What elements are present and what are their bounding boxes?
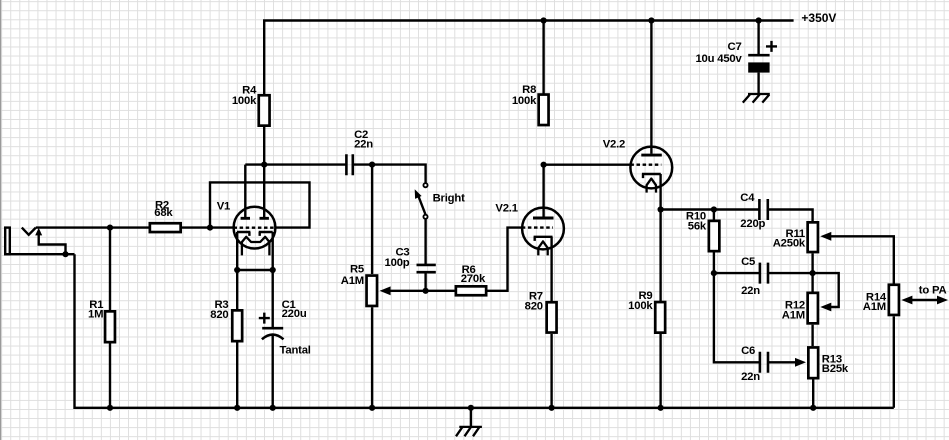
svg-text:A1M: A1M xyxy=(782,309,805,321)
svg-text:C6: C6 xyxy=(741,345,755,357)
junction: R1 top xyxy=(107,225,113,231)
capacitor C5 22n xyxy=(741,256,768,297)
svg-text:V2.2: V2.2 xyxy=(603,139,625,151)
junction: R4 bottom node xyxy=(261,162,267,168)
V2.1 grid dashes xyxy=(522,226,553,228)
wire: C6 to R13 wiper xyxy=(768,361,796,363)
svg-text:1M: 1M xyxy=(88,308,103,320)
svg-text:22n: 22n xyxy=(741,285,760,297)
svg-text:270k: 270k xyxy=(461,273,486,285)
junction: R13 bottom on rail xyxy=(810,405,816,411)
wire: +350V top rail xyxy=(264,21,793,95)
V2.2 heater xyxy=(647,179,656,193)
capacitor C1 220u Tantal xyxy=(259,270,311,408)
V1 plate leads xyxy=(245,165,264,217)
svg-text:A250k: A250k xyxy=(773,238,806,250)
wire: R10 bottom to C5 xyxy=(714,272,760,274)
V2.2 grid dashes xyxy=(630,163,661,165)
resistor R2 68k xyxy=(150,199,181,232)
V1 cathode leads xyxy=(237,232,273,270)
capacitor C7 10u 450v xyxy=(695,21,777,94)
svg-text:C5: C5 xyxy=(741,256,755,268)
resistor R9 100k xyxy=(628,210,665,408)
input jack xyxy=(4,228,75,258)
wire: V1 grid tie box xyxy=(210,182,310,227)
svg-text:820: 820 xyxy=(210,309,228,321)
junction: C1 bottom on rail xyxy=(270,405,276,411)
junction: C2 output node xyxy=(369,162,375,168)
wire: R2 to V1 grid xyxy=(182,226,233,228)
wire: node down to R5 top xyxy=(371,165,373,274)
V2.1 plate lead xyxy=(542,165,544,217)
resistor R1 1M xyxy=(88,228,115,408)
junction: ground on rail xyxy=(468,405,474,411)
V1 grid dashes xyxy=(234,226,276,228)
junction: R10 bottom node xyxy=(711,270,717,276)
V1 heater xyxy=(242,237,270,256)
V2.1 heater xyxy=(538,241,547,255)
svg-text:Bright: Bright xyxy=(433,192,465,204)
potentiometer R12 A1M xyxy=(782,273,832,346)
capacitor C3 100p xyxy=(385,219,436,291)
wire: node to V2.2 grid xyxy=(544,163,631,165)
junction: C3 bottom node xyxy=(423,288,429,294)
svg-text:A1M: A1M xyxy=(341,275,364,287)
junction: R9 bottom on rail xyxy=(658,405,664,411)
junction: R8 top on rail xyxy=(541,17,547,23)
resistor R3 820 xyxy=(210,270,242,408)
junction: tie right xyxy=(270,267,276,273)
wire: cathode tie xyxy=(237,269,273,271)
wire: C4 to R11 xyxy=(768,210,813,222)
resistor R8 100k xyxy=(512,21,549,126)
svg-text:+350V: +350V xyxy=(801,11,836,25)
svg-text:A1M: A1M xyxy=(863,301,886,313)
junction: V2.2 plate on rail xyxy=(648,17,654,23)
tube V2.1 xyxy=(495,165,563,256)
potentiometer R13 B25k xyxy=(795,347,849,407)
junction: R1 bottom on rail xyxy=(107,405,113,411)
wire: R14 wiper to PA with output arrow xyxy=(912,285,948,305)
junction: cathode node xyxy=(658,206,664,212)
junction: tie left xyxy=(234,267,240,273)
left window edge xyxy=(0,0,2,440)
potentiometer R11 A250k xyxy=(773,222,832,273)
switch Bright xyxy=(415,183,465,219)
junction: R8 bottom node xyxy=(541,162,547,168)
resistor R10 56k xyxy=(686,210,719,274)
capacitor C6 22n xyxy=(741,345,768,383)
tube V1 xyxy=(217,165,276,270)
svg-text:68k: 68k xyxy=(154,207,173,219)
ground: below C7 xyxy=(743,94,770,103)
tube V2.2 xyxy=(603,21,672,193)
resistor R6 270k xyxy=(456,264,486,295)
wire: plate node to C2 xyxy=(245,163,346,165)
svg-text:V2.1: V2.1 xyxy=(495,203,517,215)
junction: grid node xyxy=(207,225,213,231)
V2.2 cathode xyxy=(642,174,661,178)
svg-text:B25k: B25k xyxy=(822,363,849,375)
wire: R6 to V2.1 grid xyxy=(488,228,522,291)
svg-text:C4: C4 xyxy=(740,192,755,204)
resistor R7 820 xyxy=(525,237,557,408)
svg-text:220u: 220u xyxy=(282,308,307,320)
svg-text:C7: C7 xyxy=(728,41,742,53)
potentiometer R5 A1M xyxy=(341,263,391,408)
svg-text:820: 820 xyxy=(525,300,543,312)
junction: C7 top on rail xyxy=(756,17,762,23)
svg-text:100p: 100p xyxy=(385,257,410,269)
svg-text:220p: 220p xyxy=(740,218,765,230)
junction: R3 bottom on rail xyxy=(234,405,240,411)
capacitor C2 22n xyxy=(346,129,373,175)
V2.2 plate bar xyxy=(641,154,662,157)
V1 plate bars xyxy=(241,217,269,220)
junction: R10 top xyxy=(711,206,717,212)
svg-text:V1: V1 xyxy=(217,201,230,213)
svg-text:100k: 100k xyxy=(628,300,653,312)
wire: bottom ground rail xyxy=(75,254,894,408)
resistor R4 100k xyxy=(232,85,270,165)
wire: V2.2 cathode down xyxy=(659,174,661,210)
ground: bottom rail xyxy=(456,408,482,437)
wire: R5 wiper to R6 xyxy=(390,290,455,292)
wire: C5 to R12 node xyxy=(768,272,813,274)
svg-text:to PA: to PA xyxy=(919,285,947,297)
svg-text:56k: 56k xyxy=(688,220,707,232)
svg-text:10u 450v: 10u 450v xyxy=(695,53,742,65)
junction: R11/R12/C5 node xyxy=(810,270,816,276)
wire: R11 wiper to R14 top xyxy=(831,236,894,283)
svg-text:22n: 22n xyxy=(741,371,760,383)
svg-text:R5: R5 xyxy=(350,263,364,275)
svg-text:100k: 100k xyxy=(512,95,537,107)
svg-text:Tantal: Tantal xyxy=(280,345,311,357)
wire: jack tip to R2 xyxy=(36,226,149,228)
V2.1 cathode xyxy=(534,237,553,241)
V1 cathode right xyxy=(259,232,273,236)
capacitor C4 220p xyxy=(740,192,768,230)
V1 cathode left xyxy=(237,232,251,236)
svg-text:100k: 100k xyxy=(232,95,257,107)
svg-text:22n: 22n xyxy=(354,138,373,150)
wire: node loop to R12 wiper xyxy=(813,273,839,307)
wire: C5 node down to C6 xyxy=(714,273,760,362)
wire: C2 to bright switch xyxy=(353,165,426,184)
V2.1 plate bar xyxy=(533,217,554,220)
junction: R7 bottom on rail xyxy=(549,405,555,411)
junction: R5 bottom on rail xyxy=(369,405,375,411)
wire: cathode node to C4 xyxy=(661,208,760,210)
potentiometer R14 A1M xyxy=(863,285,913,408)
V2.2 plate lead xyxy=(650,21,652,154)
